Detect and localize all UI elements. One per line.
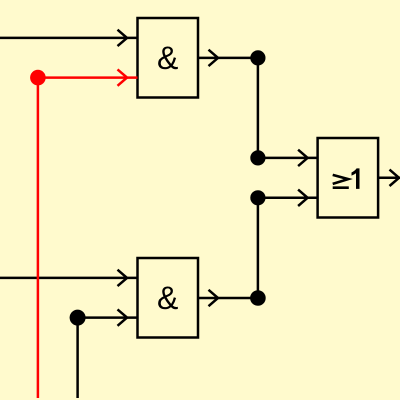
svg-text:&: & xyxy=(157,280,178,316)
svg-text:&: & xyxy=(157,40,178,76)
